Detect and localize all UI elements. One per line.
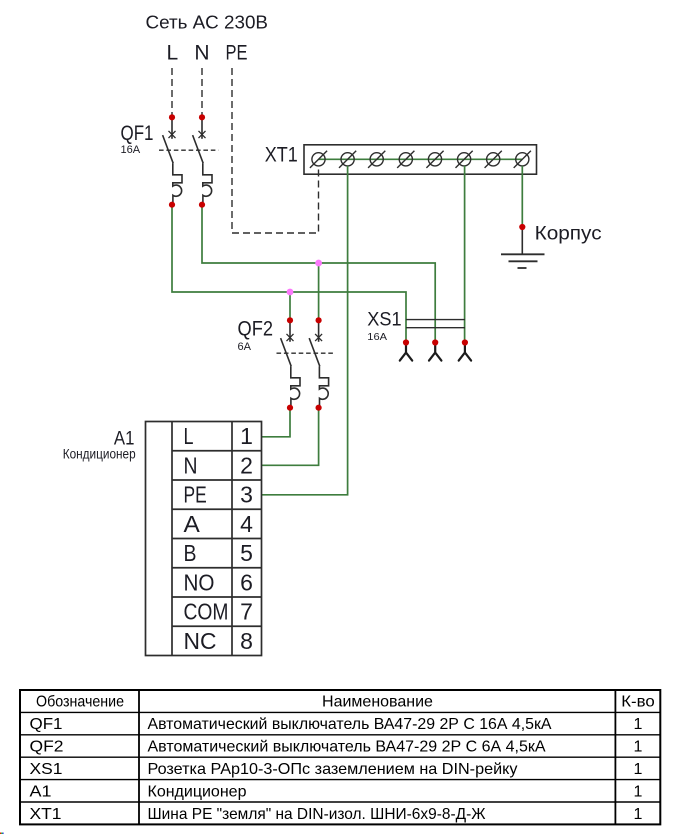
- svg-text:XT1: XT1: [265, 143, 298, 166]
- svg-text:QF2: QF2: [238, 318, 274, 341]
- svg-text:6A: 6A: [238, 341, 252, 353]
- XT1 screw terminals 1-8: [310, 151, 531, 168]
- junction: XS1 contact L: [403, 339, 409, 345]
- svg-text:NC: NC: [184, 628, 217, 654]
- svg-text:Шина РЕ "земля" на DIN-изол. Ш: Шина РЕ "земля" на DIN-изол. ШНИ-6х9-8-Д…: [148, 806, 486, 823]
- XS1 socket contact N: [429, 345, 441, 360]
- svg-text:Автоматический выключатель ВА4: Автоматический выключатель ВА47-29 2Р С …: [148, 716, 552, 733]
- svg-text:PE: PE: [184, 482, 207, 508]
- XT1 internal bus wire: [319, 158, 523, 160]
- junction: QF1 input N: [199, 114, 205, 120]
- svg-text:16A: 16A: [367, 331, 387, 343]
- svg-text:B: B: [184, 540, 197, 566]
- XS1 socket contact PE: [459, 345, 471, 360]
- wire: QF2 output 2 to A1 pin 2: [262, 408, 319, 466]
- svg-text:16A: 16A: [121, 144, 141, 156]
- svg-text:1: 1: [634, 716, 643, 733]
- svg-text:A1: A1: [30, 783, 52, 800]
- svg-text:XS1: XS1: [367, 309, 401, 330]
- svg-text:5: 5: [240, 540, 253, 566]
- svg-text:Обозначение: Обозначение: [36, 694, 124, 711]
- net junction: L branch (magenta): [287, 289, 294, 296]
- wire: branch N to QF2 input 2: [318, 263, 320, 320]
- svg-text:QF1: QF1: [30, 716, 63, 733]
- svg-text:1: 1: [634, 806, 643, 823]
- junction: XS1 contact N: [432, 339, 438, 345]
- junction: QF1 input L: [169, 114, 175, 120]
- svg-text:1: 1: [634, 783, 643, 800]
- svg-text:Сеть AC 230В: Сеть AC 230В: [146, 12, 269, 33]
- svg-text:1: 1: [634, 739, 643, 756]
- svg-text:6: 6: [240, 570, 253, 596]
- svg-text:8: 8: [240, 628, 253, 654]
- wire: XT1 terminal 8 to chassis: [521, 166, 523, 227]
- chassis ground symbol (Корпус): [501, 227, 545, 268]
- svg-text:Автоматический выключатель ВА4: Автоматический выключатель ВА47-29 2Р С …: [148, 739, 546, 756]
- svg-text:N: N: [194, 42, 209, 65]
- svg-text:A: A: [184, 511, 201, 537]
- circuit breaker QF2 pole 1: [281, 320, 300, 407]
- svg-text:COM: COM: [184, 599, 229, 625]
- svg-text:Розетка РАр10-3-ОПс заземление: Розетка РАр10-3-ОПс заземлением на DIN-р…: [148, 761, 518, 778]
- svg-text:1: 1: [240, 423, 253, 449]
- svg-text:2: 2: [240, 453, 253, 479]
- PE bus XT1 body: [304, 145, 537, 174]
- socket XS1 body bars: [406, 320, 465, 328]
- scan artifact bottom-left: [0, 833, 1, 834]
- svg-text:L: L: [184, 423, 194, 449]
- svg-text:N: N: [184, 453, 198, 479]
- junction: QF1 output L: [169, 202, 175, 208]
- svg-text:Наименование: Наименование: [322, 694, 433, 711]
- wire: XT1 terminal 2 to A1 pin 3 (PE): [262, 166, 348, 495]
- circuit breaker QF1 pole 2: [193, 117, 212, 204]
- svg-text:XS1: XS1: [30, 761, 63, 778]
- wire: N supply lead (dashed): [201, 68, 203, 117]
- svg-text:4: 4: [240, 511, 253, 537]
- svg-text:Корпус: Корпус: [535, 224, 602, 245]
- A1 terminal strip grid: [172, 422, 262, 656]
- wire: branch L to QF2 input 1: [289, 292, 291, 320]
- junction: XS1 contact PE: [462, 339, 468, 345]
- wire: QF1 L output to XS1 contact L: [172, 205, 406, 343]
- wire: XT1 terminal 6 to XS1 contact PE: [464, 166, 466, 343]
- XS1 socket contact L: [400, 345, 412, 360]
- svg-text:XT1: XT1: [30, 806, 62, 823]
- junction: QF1 output N: [199, 202, 205, 208]
- net junction: N branch (magenta): [315, 260, 322, 267]
- svg-text:1: 1: [634, 761, 643, 778]
- circuit breaker QF1 pole 1: [163, 117, 182, 204]
- wire: QF1 N output to XS1 contact N: [202, 205, 435, 343]
- QF2 mechanical link (dashed): [277, 352, 335, 354]
- junction: chassis node: [519, 224, 525, 230]
- svg-text:PE: PE: [226, 42, 248, 65]
- wire: QF2 output 1 to A1 pin 1: [262, 408, 291, 437]
- svg-text:L: L: [166, 42, 178, 65]
- junction: QF2 input 1: [287, 317, 293, 323]
- air conditioner A1 body: [146, 422, 262, 656]
- svg-text:7: 7: [240, 599, 253, 625]
- svg-text:Кондиционер: Кондиционер: [63, 447, 136, 462]
- junction: QF2 output 1: [287, 405, 293, 411]
- junction: QF2 input 2: [316, 317, 322, 323]
- junction: QF2 output 2: [316, 405, 322, 411]
- parts list table: [20, 690, 660, 824]
- svg-text:К-во: К-во: [621, 694, 655, 711]
- svg-text:QF1: QF1: [121, 122, 154, 145]
- wire: L supply lead (dashed): [171, 68, 173, 117]
- wire: PE supply lead to XT1 terminal 1 (dashed): [232, 68, 319, 233]
- svg-text:3: 3: [240, 482, 253, 508]
- svg-text:Кондиционер: Кондиционер: [148, 783, 247, 800]
- svg-text:QF2: QF2: [30, 739, 64, 756]
- svg-text:NO: NO: [184, 570, 215, 596]
- circuit breaker QF2 pole 2: [309, 320, 328, 407]
- QF1 mechanical link (dashed): [159, 149, 218, 151]
